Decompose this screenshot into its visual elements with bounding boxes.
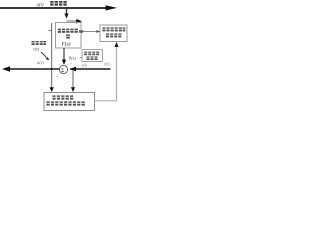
- white slits to texture char blobs: [31, 3, 125, 103]
- op block U4: measuring transmitter box (bottom): [44, 93, 95, 111]
- arrowhead down into box F1: [64, 14, 68, 19]
- wire: summer output to the left: [5, 68, 59, 70]
- U4 text row1 (5 CJK blobs): [52, 95, 73, 99]
- summing junction S1: [59, 65, 67, 73]
- svg-text:y(t): y(t): [103, 61, 110, 66]
- svg-text:u(t): u(t): [37, 60, 44, 65]
- op block U2: controller box: [82, 50, 103, 62]
- op block U1: feedforward controller box: [56, 23, 82, 49]
- U1 text row2 (1 CJK blob): [66, 34, 70, 38]
- wire: branch to disturbance-channel box: [67, 20, 78, 22]
- wire: feedback line into summer from right: [70, 68, 111, 70]
- arrowhead into summer top: [62, 60, 66, 65]
- arrowhead right end of top line: [106, 5, 118, 10]
- wire: top disturbance line: [0, 7, 107, 9]
- U4 text row2 (8 CJK blobs): [46, 101, 84, 105]
- wire: tap from F1 left edge down to measuring box: [49, 30, 52, 32]
- wire: box F1 output down to summer: [63, 48, 65, 60]
- junction blob: [79, 30, 82, 33]
- wire: down right side of box F1: [80, 22, 82, 32]
- node disturbance name (4 CJK char blobs): [50, 1, 67, 6]
- U3 text row1 (6 CJK blobs): [102, 27, 125, 31]
- arrowhead into right box on cross wire: [97, 30, 101, 33]
- wire: measuring box output right then up to disturbance channel box: [95, 46, 117, 101]
- U3 text row2 (4 CJK blobs): [106, 33, 121, 37]
- U2 text row2 (3 CJK blobs): [87, 56, 98, 60]
- svg-text:F(s): F(s): [61, 41, 71, 48]
- svg-text:Σ: Σ: [61, 68, 64, 74]
- arrowhead right on branch: [76, 19, 82, 24]
- wire: across to right box: [80, 31, 100, 33]
- arrowhead up into top-right box: [114, 42, 118, 47]
- arrowhead left at left edge: [2, 66, 10, 72]
- wire: stub at controller box left edge: [80, 57, 82, 59]
- U1 text row1 (5 CJK blobs): [58, 29, 78, 33]
- wire: vertical from feedback line down to measuring box: [72, 70, 74, 88]
- op block U3: disturbance channel box (top right): [100, 25, 127, 42]
- svg-text:r(t): r(t): [33, 47, 40, 52]
- junction on output line: [51, 68, 53, 70]
- annotation arrow to tap wire: [41, 52, 47, 58]
- node setpoint label (2 lines): [32, 41, 47, 45]
- arrowhead down into measuring box second input: [71, 87, 75, 92]
- arrowhead down into measuring box: [50, 87, 54, 92]
- svg-text:u(t): u(t): [37, 3, 44, 8]
- svg-text:P(s): P(s): [68, 56, 77, 61]
- U2 text row1 (4 CJK blobs): [84, 52, 99, 56]
- svg-text:y(t): y(t): [81, 63, 88, 68]
- wire: drop from top line into feedforward box: [66, 9, 68, 15]
- arrowhead pointing left into summer: [70, 67, 76, 72]
